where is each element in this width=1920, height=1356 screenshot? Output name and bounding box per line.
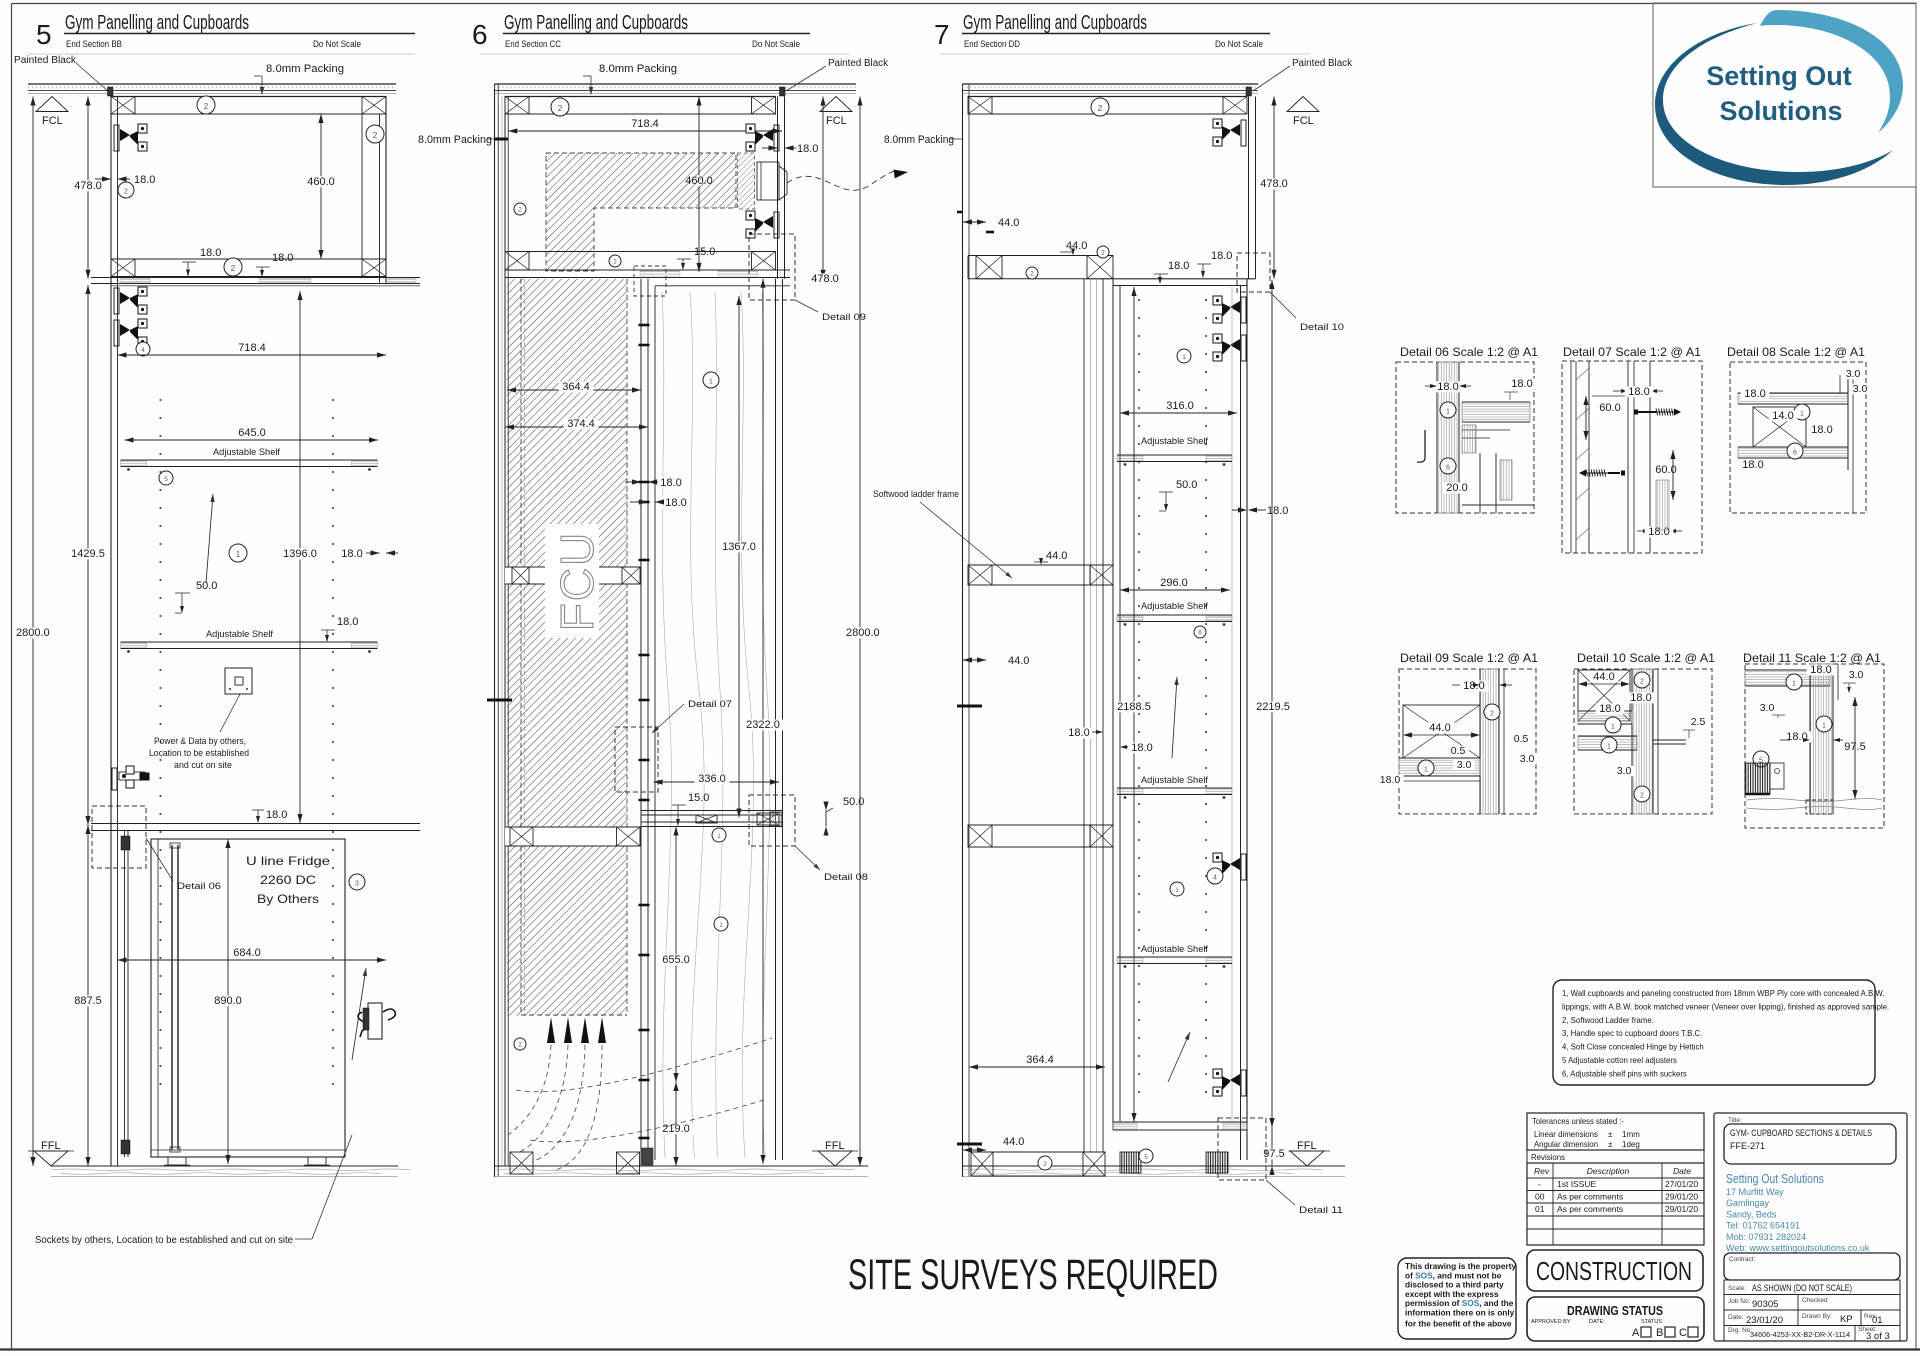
sec7 dim 478.0 [1273, 97, 1275, 279]
svg-text:As per comments: As per comments [1557, 1204, 1623, 1214]
svg-text:00: 00 [1535, 1192, 1545, 1202]
sec5 power & data symbol [225, 668, 252, 694]
detail 06 content [1437, 362, 1459, 513]
sec5 left lower panel [124, 831, 126, 1157]
sec5 hinge top [114, 124, 147, 151]
svg-text:Adjustable Shelf: Adjustable Shelf [1141, 436, 1208, 447]
svg-text:18.0: 18.0 [266, 809, 287, 821]
sec5 right stile top cupboard [361, 114, 363, 259]
sec6 door top edge [655, 285, 790, 287]
svg-text:1: 1 [1607, 743, 1611, 750]
svg-text:Detail 09: Detail 09 [822, 312, 866, 323]
svg-text:A: A [1632, 1327, 1640, 1339]
svg-text:2.5: 2.5 [1691, 716, 1706, 728]
sec5 counter above fridge [91, 823, 420, 825]
svg-text:23/01/20: 23/01/20 [1746, 1315, 1783, 1326]
svg-text:50.0: 50.0 [843, 796, 864, 808]
svg-text:18.0: 18.0 [1628, 386, 1649, 398]
sec7 band2 left section [967, 256, 969, 279]
sec5 ceiling [28, 83, 396, 85]
svg-text:219.0: 219.0 [662, 1123, 690, 1135]
svg-text:8.0mm Packing: 8.0mm Packing [266, 63, 344, 75]
detail 11 box [1745, 664, 1884, 828]
sec7 ceiling [963, 83, 1259, 85]
svg-text:44.0: 44.0 [1008, 655, 1029, 667]
svg-text:As per comments: As per comments [1557, 1192, 1623, 1202]
svg-text:Job No:: Job No: [1728, 1298, 1751, 1305]
svg-text:460.0: 460.0 [307, 176, 335, 188]
svg-text:FFE-271: FFE-271 [1730, 1141, 1765, 1151]
svg-text:2: 2 [1490, 710, 1494, 717]
sec7 wall [962, 84, 964, 1177]
sec7 bottom X band [971, 1151, 1105, 1153]
svg-text:Do Not Scale: Do Not Scale [313, 39, 361, 49]
svg-text:15.0: 15.0 [688, 792, 709, 804]
svg-text:Date:: Date: [1728, 1314, 1744, 1321]
svg-text:Power & Data by others,: Power & Data by others, [154, 736, 246, 746]
svg-text:1deg: 1deg [1622, 1140, 1640, 1149]
svg-text:DRAWING STATUS: DRAWING STATUS [1567, 1303, 1663, 1318]
svg-text:18.0: 18.0 [1810, 664, 1831, 676]
sec6 wall ticks [487, 699, 512, 702]
sec7 top rail [968, 96, 1247, 98]
svg-text:lippings, with A.B.W. book mat: lippings, with A.B.W. book matched venee… [1562, 1002, 1889, 1011]
sec7 dim 296.0 [1120, 589, 1230, 591]
svg-text:18.0: 18.0 [200, 247, 221, 259]
svg-text:Detail 08: Detail 08 [824, 872, 868, 883]
svg-text:Detail 11: Detail 11 [1299, 1205, 1343, 1216]
sec7 detail 11 dashed box [1218, 1118, 1266, 1180]
sec5 bubbles top [197, 96, 215, 114]
revision table [1527, 1163, 1704, 1245]
svg-text:Tolerances unless stated :-: Tolerances unless stated :- [1532, 1117, 1624, 1126]
sec5 FCL symbol [36, 97, 68, 112]
sec6 dim 336.0 [654, 781, 780, 783]
svg-text:3.0: 3.0 [1617, 765, 1632, 777]
sec5 dim 645.0 [125, 439, 379, 441]
svg-text:1, Wall cupboards and paneling: 1, Wall cupboards and paneling construct… [1562, 989, 1884, 998]
date row [1724, 1310, 1900, 1326]
sec6 mid shelf assembly [641, 810, 782, 812]
sec6 mid X band 1 [505, 567, 640, 584]
svg-text:End Section BB: End Section BB [66, 39, 122, 49]
svg-text:Revisions: Revisions [1531, 1153, 1565, 1162]
svg-text:887.5: 887.5 [74, 995, 102, 1007]
sec6 hinge plate [757, 162, 779, 200]
svg-text:50.0: 50.0 [1176, 479, 1197, 491]
logo box [1653, 3, 1916, 187]
svg-text:18.0: 18.0 [1811, 424, 1832, 436]
svg-text:7: 7 [934, 19, 950, 50]
svg-text:8.0mm Packing: 8.0mm Packing [418, 134, 492, 146]
svg-text:STATUS: STATUS [1641, 1319, 1662, 1325]
sec5 dim 460.0 [320, 114, 322, 259]
sec7 inner cupboard sides [1112, 279, 1114, 1130]
sec6 ceiling [495, 83, 857, 85]
detail 07 box [1562, 361, 1702, 553]
svg-text:3: 3 [355, 880, 359, 887]
detail 08 content [1738, 393, 1848, 404]
sec7 band2 [968, 255, 1113, 257]
sec6 dim 374.4 [505, 426, 648, 428]
svg-text:655.0: 655.0 [662, 954, 690, 966]
sec6 dim 364.4 [507, 389, 641, 391]
sec6 floor [495, 1165, 869, 1167]
svg-text:Painted Black: Painted Black [828, 58, 889, 69]
drg row [1724, 1326, 1900, 1342]
svg-text:60.0: 60.0 [1655, 464, 1676, 476]
svg-text:-: - [1538, 1179, 1541, 1189]
detail 09 content [1480, 669, 1499, 814]
svg-text:5 Adjustable cotton reel adjus: 5 Adjustable cotton reel adjusters [1562, 1056, 1677, 1065]
svg-text:17 Murfitt Way: 17 Murfitt Way [1726, 1187, 1784, 1197]
svg-text:Detail 08 Scale 1:2 @ A1: Detail 08 Scale 1:2 @ A1 [1727, 345, 1865, 359]
svg-text:8.0mm Packing: 8.0mm Packing [599, 63, 677, 75]
svg-text:2322.0: 2322.0 [746, 719, 780, 731]
svg-text:2219.5: 2219.5 [1256, 701, 1290, 713]
sec7 mid X band 565 [968, 564, 1113, 566]
svg-text:End Section DD: End Section DD [964, 39, 1020, 49]
svg-text:6: 6 [1793, 449, 1797, 456]
svg-text:3, Handle spec to cupboard doo: 3, Handle spec to cupboard doors T.B.C. [1562, 1029, 1702, 1038]
svg-text:18.0: 18.0 [1744, 388, 1765, 400]
svg-text:Angular dimension: Angular dimension [1534, 1140, 1598, 1149]
sec6 hinge mid [746, 211, 779, 238]
sec6 S-curve pointer to sec7 [787, 171, 901, 190]
svg-text:Adjustable Shelf: Adjustable Shelf [213, 447, 280, 458]
svg-text:1: 1 [1611, 723, 1615, 730]
sec6 band2 shelf [505, 269, 790, 271]
sec7 dim 316.0 [1120, 412, 1237, 414]
sec6 mid X band 2 [505, 827, 640, 846]
svg-text:18.0: 18.0 [1131, 742, 1152, 754]
sec6 wood grain panel [662, 292, 671, 1158]
sec6 bottom plinth [510, 1152, 533, 1174]
svg-text:6: 6 [472, 19, 488, 50]
sec7 dim 2219.5 [1271, 280, 1273, 1127]
svg-text:1mm: 1mm [1622, 1130, 1640, 1139]
sec7 FCL symbol [1287, 97, 1319, 112]
svg-text:1: 1 [709, 378, 713, 385]
notes box [1553, 980, 1875, 1085]
svg-text:Painted Black: Painted Black [1292, 58, 1353, 69]
sec7 hinge mid1 [1213, 853, 1246, 880]
svg-text:SITE SURVEYS REQUIRED: SITE SURVEYS REQUIRED [848, 1251, 1218, 1299]
svg-text:Gym Panelling and Cupboards: Gym Panelling and Cupboards [963, 12, 1147, 34]
svg-text:2: 2 [124, 188, 128, 195]
svg-text:Detail 06: Detail 06 [177, 881, 221, 892]
svg-text:Detail 07: Detail 07 [688, 699, 732, 710]
svg-text:18.0: 18.0 [660, 477, 681, 489]
sec5 fridge [151, 839, 345, 1157]
svg-text:18.0: 18.0 [1599, 703, 1620, 715]
sec6 top rail [505, 96, 776, 98]
detail 07 screw top [1634, 410, 1638, 415]
sec6 FCU letters [545, 524, 599, 638]
sec5 bubble 3 [349, 874, 365, 890]
sec5 dim 1429.5 [87, 285, 89, 825]
sec6 dim 2322.0 [762, 279, 764, 1164]
svg-text:34606-4253-XX-B2-DR-X-1114: 34606-4253-XX-B2-DR-X-1114 [1750, 1330, 1850, 1339]
detail 07 screw bottom [1579, 470, 1586, 477]
svg-text:29/01/20: 29/01/20 [1665, 1192, 1698, 1202]
sec5 dim 887.5 [87, 825, 89, 1166]
svg-text:Do Not Scale: Do Not Scale [1215, 39, 1263, 49]
svg-text:Solutions: Solutions [1720, 96, 1843, 126]
svg-text:44.0: 44.0 [1046, 550, 1067, 562]
svg-text:Rev: Rev [1534, 1166, 1550, 1176]
svg-text:1367.0: 1367.0 [722, 541, 756, 553]
svg-text:AS SHOWN (DO NOT SCALE): AS SHOWN (DO NOT SCALE) [1752, 1283, 1852, 1293]
contract box [1724, 1253, 1900, 1280]
svg-text:374.4: 374.4 [567, 418, 595, 430]
svg-text:4: 4 [1213, 874, 1217, 881]
sec5 FFL symbol [34, 1151, 68, 1166]
svg-text:18.0: 18.0 [1511, 378, 1532, 390]
sec7 bubble 2 bottom [1038, 1156, 1052, 1170]
sec5 hinge band2 lower [114, 319, 147, 346]
svg-text:18.0: 18.0 [1437, 381, 1458, 393]
svg-text:3.0: 3.0 [1846, 368, 1861, 380]
svg-text:GYM- CUPBOARD SECTIONS & DETA: GYM- CUPBOARD SECTIONS & DETAILS [1730, 1128, 1872, 1138]
svg-text:18.0: 18.0 [1267, 505, 1288, 517]
job row [1724, 1295, 1900, 1311]
svg-text:for the benefit of the above: for the benefit of the above [1405, 1319, 1512, 1329]
sec5 painted black tick [108, 87, 114, 96]
sec6 detail 08 dashed box [749, 795, 795, 846]
svg-text:27/01/20: 27/01/20 [1665, 1179, 1698, 1189]
svg-text:U line Fridge: U line Fridge [246, 854, 330, 868]
svg-text:Checked: Checked [1802, 1297, 1828, 1304]
tolerances box [1527, 1113, 1704, 1150]
svg-text:364.4: 364.4 [562, 381, 590, 393]
detail 10 box [1574, 669, 1712, 814]
sec6 dim 460.0 [698, 97, 700, 272]
svg-text:718.4: 718.4 [631, 118, 659, 130]
svg-text:3.0: 3.0 [1457, 759, 1472, 771]
svg-text:2: 2 [231, 264, 236, 273]
sec6 painted black tick [780, 87, 786, 96]
sec5 detail 06 dashed box [92, 806, 146, 868]
svg-text:KP: KP [1840, 1314, 1853, 1325]
svg-text:8.0mm Packing: 8.0mm Packing [884, 134, 954, 146]
sec7 FFL symbol [1290, 1151, 1324, 1166]
sec6 cabinet back [504, 97, 506, 1167]
svg-text:2800.0: 2800.0 [846, 627, 880, 639]
sec7 painted black tick [1246, 87, 1252, 96]
svg-text:890.0: 890.0 [214, 995, 242, 1007]
svg-text:4, Soft Close concealed Hinge: 4, Soft Close concealed Hinge by Hettich [1562, 1043, 1704, 1052]
svg-text:Drawn By:: Drawn By: [1802, 1313, 1832, 1320]
svg-text:Linear dimensions: Linear dimensions [1534, 1130, 1598, 1139]
sec5 door swing arrow [206, 494, 213, 583]
sec7 bottom shelf [1113, 1121, 1247, 1123]
svg-text:End Section CC: End Section CC [505, 39, 561, 49]
svg-text:1429.5: 1429.5 [71, 548, 105, 560]
sec6 dim 718.4 [508, 130, 782, 132]
svg-text:2: 2 [1640, 792, 1644, 799]
revisions row [1527, 1150, 1704, 1163]
sec5 power & data note [220, 694, 240, 732]
svg-text:Drg. No:: Drg. No: [1728, 1327, 1752, 1334]
scale row [1724, 1280, 1900, 1295]
svg-text:3.0: 3.0 [1760, 702, 1775, 714]
svg-text:1: 1 [1822, 722, 1826, 729]
detail 07 content [1570, 361, 1572, 553]
svg-text:Softwood ladder frame: Softwood ladder frame [873, 489, 959, 500]
svg-text:718.4: 718.4 [238, 342, 266, 354]
sec6 FCL symbol [820, 97, 852, 112]
sec7 hinges top cupboard [1213, 119, 1246, 146]
sec5 dim 478.0 [87, 97, 89, 279]
sec7 bubble 1 [1170, 882, 1184, 896]
svg-text:0.5: 0.5 [1451, 745, 1466, 757]
svg-text:18.0: 18.0 [337, 616, 358, 628]
svg-text:2: 2 [558, 104, 563, 113]
svg-text:Date: Date [1673, 1166, 1691, 1176]
svg-text:60.0: 60.0 [1599, 402, 1620, 414]
svg-text:FCL: FCL [42, 115, 63, 127]
svg-text:FFL: FFL [1297, 1140, 1317, 1152]
sec6 dim 1367.0 [738, 296, 740, 818]
sec7 right door top [1248, 97, 1250, 279]
svg-text:APPROVED BY: APPROVED BY [1531, 1319, 1571, 1325]
svg-text:and cut on site: and cut on site [174, 760, 232, 770]
construction box [1527, 1250, 1703, 1291]
svg-text:FCU: FCU [551, 531, 603, 632]
sec6 door panel edges [654, 286, 656, 1160]
svg-text:1: 1 [236, 550, 241, 559]
sec7 wall ticks [957, 705, 982, 708]
svg-text:364.4: 364.4 [1026, 1054, 1054, 1066]
svg-text:FCL: FCL [1293, 115, 1314, 127]
sec5 top rail [111, 96, 386, 98]
sec6 FCU column hatch [507, 279, 627, 1016]
svg-text:3.0: 3.0 [1520, 753, 1535, 765]
svg-text:18.0: 18.0 [797, 143, 818, 155]
svg-text:01: 01 [1872, 1315, 1883, 1326]
svg-text:Location to be established: Location to be established [149, 748, 249, 758]
sec5 door swing arrow bottom [352, 968, 366, 1060]
svg-text:Gamlingay: Gamlingay [1726, 1198, 1770, 1208]
sec6 wall [494, 84, 496, 1177]
svg-text:18.0: 18.0 [1630, 692, 1651, 704]
sec7 feet [1120, 1152, 1141, 1173]
svg-text:336.0: 336.0 [698, 773, 726, 785]
svg-text:information there on is only: information there on is only [1405, 1308, 1515, 1318]
sec6 dim 18.0 pair [657, 477, 686, 488]
svg-text:Tel: 01762 654191: Tel: 01762 654191 [1726, 1221, 1800, 1231]
svg-text:Gym Panelling and Cupboards: Gym Panelling and Cupboards [504, 12, 688, 34]
svg-text:14.0: 14.0 [1772, 410, 1793, 422]
sec5 cabinet back panel [110, 97, 112, 1167]
sec6 airflow arrows [547, 1017, 555, 1043]
sec7 floor [963, 1165, 1346, 1167]
sec6 bubble list [551, 98, 569, 116]
svg-text:20.0: 20.0 [1446, 482, 1467, 494]
svg-text:2: 2 [373, 131, 378, 140]
svg-text:Detail 10 Scale 1:2 @ A1: Detail 10 Scale 1:2 @ A1 [1577, 651, 1715, 665]
sec5 worktop shelf [91, 277, 420, 279]
sec5 dim 2800.0 [32, 97, 34, 1167]
svg-text:18.0: 18.0 [665, 497, 686, 509]
detail 10 content [1578, 670, 1630, 721]
sec5 dim 684.0 [118, 959, 387, 961]
svg-text:18.0: 18.0 [134, 174, 155, 186]
svg-text:316.0: 316.0 [1166, 400, 1194, 412]
detail 11 content [1745, 670, 1830, 686]
sec6 FCU top hatch block [546, 153, 736, 271]
right column outer box [1714, 1113, 1907, 1341]
page border [12, 3, 1917, 5]
svg-text:3.0: 3.0 [1853, 383, 1868, 395]
svg-text:FFL: FFL [825, 1140, 845, 1152]
svg-text:01: 01 [1535, 1204, 1545, 1214]
svg-text:Do Not Scale: Do Not Scale [752, 39, 800, 49]
sec6 detail 07 dashed box [615, 727, 658, 792]
svg-text:Detail 06 Scale 1:2 @ A1: Detail 06 Scale 1:2 @ A1 [1400, 345, 1538, 359]
svg-text:18.0: 18.0 [1380, 774, 1401, 786]
sec6 dim 2800.0 [859, 97, 861, 1167]
svg-text:Contract:: Contract: [1729, 1256, 1756, 1263]
svg-text:Web: www.settingoutsolutions.c: Web: www.settingoutsolutions.co.uk [1726, 1243, 1870, 1253]
svg-text:44.0: 44.0 [1593, 671, 1614, 683]
sec6 spine screws [639, 324, 650, 327]
logo swoosh dark arc [1655, 23, 1893, 185]
sec6 hinge top [746, 124, 779, 151]
sec6 right door top cupboard [777, 97, 779, 279]
svg-text:3.0: 3.0 [1849, 669, 1864, 681]
svg-text:Description: Description [1587, 1166, 1630, 1176]
svg-text:±: ± [1608, 1140, 1613, 1149]
sec7 hinge mid2 [1213, 1069, 1246, 1096]
svg-text:15.0: 15.0 [694, 246, 715, 258]
sec6 ladder spine [640, 279, 642, 1166]
svg-text:Sandy, Beds: Sandy, Beds [1726, 1209, 1777, 1219]
svg-text:1: 1 [1446, 408, 1450, 415]
svg-text:18.0: 18.0 [272, 252, 293, 264]
svg-text:Painted Black: Painted Black [14, 55, 77, 66]
svg-text:Adjustable Shelf: Adjustable Shelf [1141, 944, 1208, 955]
detail 09 box [1399, 669, 1536, 814]
svg-text:Scale:: Scale: [1728, 1285, 1746, 1292]
svg-text:645.0: 645.0 [238, 427, 266, 439]
sec5 floor [51, 1165, 398, 1167]
svg-text:18.0: 18.0 [1068, 727, 1089, 739]
svg-text:44.0: 44.0 [1429, 722, 1450, 734]
sec7 door bottom swing arrow [1168, 1032, 1190, 1082]
svg-text:478.0: 478.0 [1260, 178, 1288, 190]
sec5 hinge mid [112, 766, 149, 790]
svg-text:Adjustable Shelf: Adjustable Shelf [1141, 601, 1208, 612]
svg-text:18.0: 18.0 [1742, 459, 1763, 471]
svg-text:478.0: 478.0 [811, 273, 839, 285]
svg-text:6, Adjustable shelf pins with: 6, Adjustable shelf pins with suckers [1562, 1069, 1687, 1078]
svg-text:1396.0: 1396.0 [283, 548, 317, 560]
sec7 detail 10 dashed box [1237, 253, 1270, 292]
svg-text:44.0: 44.0 [998, 217, 1019, 229]
sec7 ladder frame column [1083, 279, 1085, 1152]
sec5 dim 1396.0 [299, 291, 301, 823]
sec7 dim 97.5 [1271, 1127, 1273, 1166]
svg-text:50.0: 50.0 [196, 580, 217, 592]
sec7 dim 2188.5 [1133, 287, 1135, 1122]
sec5 hinge band2 upper [114, 287, 147, 314]
svg-text:2: 2 [1640, 678, 1644, 685]
sec7 dim 18.0 inner [1128, 742, 1157, 753]
sec7 bubble 4 [1207, 868, 1223, 884]
svg-text:684.0: 684.0 [233, 947, 261, 959]
